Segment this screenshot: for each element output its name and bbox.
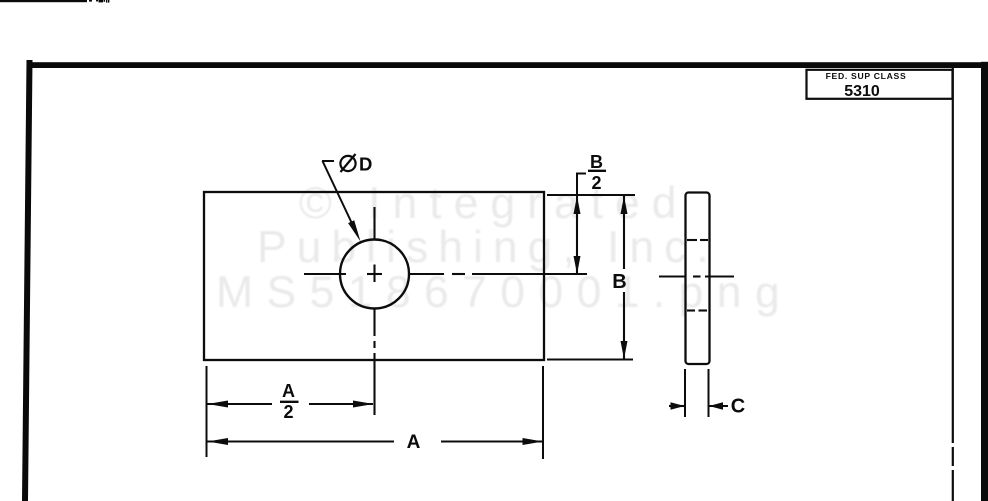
svg-text:FED. SUP CLASS: FED. SUP CLASS	[826, 71, 907, 81]
B/2 label	[590, 152, 603, 193]
watermark line 1	[299, 179, 689, 228]
vertical centerline of hole	[373, 207, 375, 415]
svg-text:C: C	[731, 396, 745, 418]
A/2 fraction bar	[280, 401, 299, 403]
frame right border	[981, 62, 988, 501]
watermark line 3	[216, 268, 793, 317]
B dimension line	[623, 196, 625, 359]
A/2 arrows	[208, 401, 229, 408]
leader line for hole diameter	[322, 161, 356, 232]
A extension line right	[542, 366, 544, 459]
inner vertical divider line	[952, 67, 954, 501]
fed sup class box	[807, 70, 953, 99]
A dimension line	[208, 440, 544, 442]
svg-text:B: B	[612, 271, 626, 293]
B extension line bottom	[547, 359, 633, 361]
horizontal centerline of hole	[304, 273, 587, 275]
leader arrowhead	[348, 220, 360, 241]
B/2 arrow down	[574, 256, 581, 274]
B extension line top	[547, 194, 635, 196]
plate front view outline	[204, 192, 544, 360]
svg-text:A: A	[407, 432, 421, 453]
svg-text:5310: 5310	[844, 83, 880, 100]
A/2 dimension line	[208, 403, 374, 405]
hole circle	[340, 240, 409, 309]
svg-text:2: 2	[591, 173, 601, 193]
svg-text:A: A	[282, 381, 295, 401]
B/2 arrow up	[574, 196, 581, 214]
svg-text:B: B	[590, 152, 603, 172]
side view hidden line lower	[687, 309, 707, 311]
scan artifact top bar	[0, 0, 109, 3]
C extension line left	[684, 369, 686, 417]
svg-text:Publishing, Inc.: Publishing, Inc.	[257, 223, 719, 272]
C dimension right arrow	[709, 402, 728, 410]
svg-text:2: 2	[283, 402, 293, 422]
A extension line left	[206, 366, 208, 457]
A arrows	[208, 438, 229, 445]
svg-text:© Integrated: © Integrated	[299, 179, 689, 228]
frame left border	[22, 60, 33, 501]
C extension line right	[708, 369, 710, 417]
side view outline	[686, 193, 710, 365]
frame top border	[27, 62, 988, 68]
svg-text:D: D	[359, 154, 372, 175]
watermark line 2	[257, 223, 719, 272]
A/2 label	[282, 381, 295, 422]
C dimension left arrow	[669, 402, 685, 410]
label diameter symbol	[340, 154, 355, 172]
B/2 dimension line	[576, 196, 578, 274]
side view hidden line upper	[687, 239, 708, 241]
B/2 fraction bar	[588, 170, 606, 172]
B/2 label elbow	[577, 174, 586, 197]
side view centerline	[659, 275, 734, 277]
B dimension arrows	[621, 196, 628, 214]
